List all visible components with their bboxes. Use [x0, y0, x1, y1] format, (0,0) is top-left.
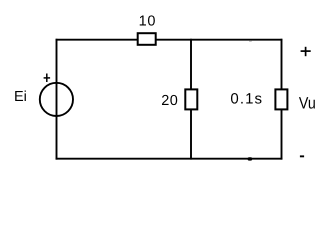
junction dot on bottom wire [248, 157, 253, 160]
svg-text:10: 10 [139, 14, 157, 30]
resistor 20 (middle branch, body) [185, 89, 197, 109]
inductor 0.1s (right branch, body) [275, 89, 287, 109]
svg-text:20: 20 [161, 93, 178, 109]
resistor 10 (top, body) [138, 33, 156, 45]
wire middle (branch through 20 resistor) [190, 39, 192, 160]
wire bottom (node B: bottom rail) [56, 158, 283, 160]
svg-text:Ei: Ei [14, 89, 27, 105]
svg-text:0.1s: 0.1s [230, 91, 263, 108]
polarity + of source Ei [44, 74, 51, 83]
polarity - of output Vu [300, 155, 304, 157]
wire top (node A: top rail from source to output) [56, 39, 283, 41]
svg-text:Vu: Vu [299, 95, 316, 113]
junction dot on top wire (faint) [249, 40, 252, 41]
wire left (source branch) [56, 39, 58, 160]
wire right (output branch) [281, 39, 283, 160]
voltage source Ei (circle) [40, 83, 73, 116]
polarity + of output Vu [301, 47, 311, 56]
